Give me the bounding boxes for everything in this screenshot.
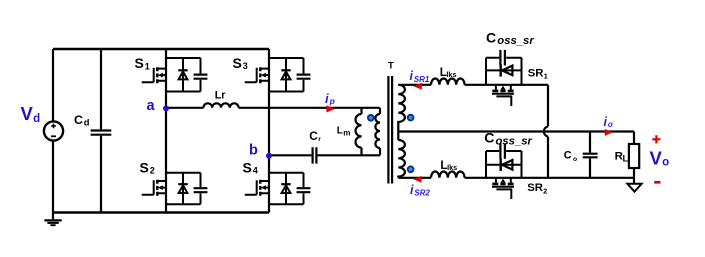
inductor Lr: [203, 103, 238, 108]
label Cr: [309, 130, 321, 143]
label Coss_sr (SR2): [484, 130, 532, 148]
transistor S1 (MOSFET): [142, 67, 166, 83]
label - (output polarity): [654, 181, 660, 184]
svg-text:SR2: SR2: [414, 189, 430, 198]
label node b: [249, 143, 258, 159]
node a: [163, 105, 169, 111]
svg-text:C: C: [74, 113, 83, 127]
body diode of SR2: [486, 151, 522, 178]
transformer secondary winding (top half): [398, 85, 405, 140]
svg-text:S: S: [135, 55, 144, 71]
parallel capacitor of S2: [194, 173, 208, 205]
svg-text:S: S: [243, 159, 252, 175]
label S1: [135, 55, 150, 71]
svg-text:lks: lks: [446, 70, 456, 79]
wire: center tap output rail: [398, 130, 634, 132]
svg-text:oss_sr: oss_sr: [496, 136, 533, 148]
label + (output polarity): [652, 135, 660, 143]
svg-text:C: C: [564, 150, 572, 162]
svg-text:m: m: [343, 129, 350, 138]
svg-text:3: 3: [243, 61, 248, 71]
svg-text:C: C: [484, 130, 494, 146]
voltage source Vd: [44, 49, 63, 219]
transistor S3 (MOSFET): [245, 67, 269, 83]
label SR1: [528, 67, 548, 80]
svg-text:i: i: [604, 115, 608, 129]
svg-text:o: o: [662, 157, 669, 169]
body diode of S1: [166, 58, 201, 92]
svg-text:d: d: [33, 113, 40, 125]
ground (output side): [627, 184, 641, 192]
capacitor Co: [583, 132, 598, 178]
wire: top DC rail: [53, 48, 269, 50]
wire: node a to transformer primary (through Lr): [166, 107, 380, 109]
transistor S4 (MOSFET): [245, 180, 269, 196]
svg-text:lks: lks: [447, 163, 457, 172]
label S2: [140, 159, 155, 175]
svg-text:Lr: Lr: [215, 90, 226, 102]
current arrow iSR1: [413, 83, 421, 90]
label Vo: [650, 148, 670, 169]
transformer primary polarity dot: [367, 114, 375, 122]
parallel capacitor of S1: [194, 58, 208, 92]
body diode of S3: [269, 58, 304, 92]
svg-text:V: V: [21, 103, 34, 124]
svg-text:SR: SR: [528, 67, 544, 79]
svg-text:V: V: [650, 148, 663, 169]
label io: [604, 115, 613, 129]
label Llks (top): [440, 66, 457, 79]
svg-text:1: 1: [544, 72, 548, 81]
ground (input side): [44, 220, 61, 225]
parallel capacitor of S3: [297, 58, 311, 92]
wire: secondary top to SR1 (through Llks): [398, 84, 548, 86]
label iSR1: [410, 69, 430, 84]
svg-text:S: S: [233, 55, 242, 71]
label Llks (bottom): [440, 159, 457, 172]
svg-text:oss_sr: oss_sr: [497, 35, 534, 47]
transformer T primary winding: [375, 108, 380, 156]
capacitor Coss_sr of SR1: [486, 50, 522, 66]
inductor Llks (top): [431, 79, 465, 85]
wire: bottom DC rail: [53, 211, 269, 213]
svg-text:2: 2: [150, 166, 155, 176]
svg-text:L: L: [337, 126, 343, 137]
body diode of SR1: [486, 58, 522, 85]
wire: S3/S4 bridge leg: [268, 49, 270, 213]
node b: [266, 153, 272, 159]
inductor Lm (magnetizing): [356, 108, 362, 156]
svg-text:o: o: [573, 156, 577, 163]
inductor Llks (bottom): [431, 172, 465, 178]
label T: [388, 59, 394, 70]
secondary polarity dot (top): [407, 114, 415, 122]
wire: secondary bottom to SR2 (through Llks) and output return rail: [398, 177, 634, 179]
label Lr: [215, 90, 226, 102]
transformer secondary winding (bottom half): [398, 140, 405, 178]
label Lm: [337, 126, 351, 138]
svg-text:C: C: [486, 30, 496, 46]
transformer core: [388, 76, 392, 184]
svg-text:a: a: [147, 98, 156, 114]
wire: node b to transformer primary (through Cr): [269, 154, 380, 156]
label RL: [615, 151, 629, 164]
transistor S2 (MOSFET): [142, 180, 166, 196]
transistor SR1 (synchronous rectifier MOSFET): [492, 85, 514, 106]
label S4: [243, 159, 258, 175]
capacitor Coss_sr of SR2: [486, 143, 522, 159]
label S3: [233, 55, 248, 71]
capacitor Cr: [313, 147, 317, 163]
resistor RL: [629, 132, 639, 184]
body diode of S4: [269, 173, 304, 205]
current arrow io: [605, 129, 613, 136]
svg-text:r: r: [318, 136, 321, 143]
current arrow ip: [326, 105, 335, 112]
current arrow iSR2: [413, 176, 421, 183]
svg-text:1: 1: [145, 61, 150, 71]
svg-text:o: o: [608, 120, 613, 129]
secondary polarity dot (bottom): [407, 166, 415, 174]
svg-text:L: L: [623, 154, 629, 164]
svg-text:SR: SR: [527, 182, 543, 194]
transistor SR2 (synchronous rectifier MOSFET): [492, 178, 514, 199]
label iSR2: [410, 183, 430, 198]
label Coss_sr (SR1): [486, 30, 534, 48]
svg-text:d: d: [84, 117, 90, 128]
svg-text:SR1: SR1: [414, 75, 430, 84]
label SR2: [527, 182, 547, 195]
label ip: [325, 91, 335, 106]
svg-text:4: 4: [253, 166, 258, 176]
svg-text:i: i: [325, 91, 329, 106]
svg-text:2: 2: [543, 186, 547, 195]
svg-text:b: b: [249, 143, 258, 159]
svg-text:p: p: [329, 96, 335, 106]
wire: S1/S2 bridge leg: [165, 49, 167, 213]
label node a: [147, 98, 156, 114]
label Cd: [74, 113, 90, 127]
svg-text:S: S: [140, 159, 149, 175]
capacitor Cd: [91, 49, 112, 213]
body diode of S2: [166, 173, 201, 205]
wire: SR1 drain down to SR2 drain (hops over output rail): [544, 85, 548, 178]
svg-text:T: T: [388, 59, 394, 70]
label Co: [564, 150, 577, 163]
svg-text:C: C: [309, 130, 318, 143]
parallel capacitor of S4: [297, 173, 311, 205]
label Vd: [21, 103, 41, 125]
